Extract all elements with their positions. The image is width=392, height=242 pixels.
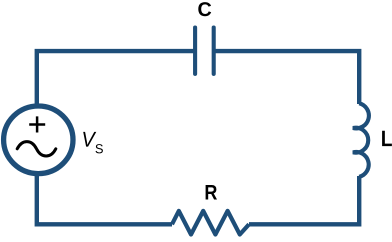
resistor R (zigzag)	[172, 211, 249, 235]
inductor L (coil)	[353, 103, 369, 177]
wire: top-right segment, capacitor C right plate to inductor L top	[216, 51, 360, 104]
value label L	[382, 131, 392, 146]
ac voltage source VS sine-wave symbol	[17, 142, 56, 156]
value label R	[206, 185, 217, 200]
ac voltage source VS polarity plus sign	[29, 116, 45, 132]
wire: left-top segment, source VS top to capacitor C left plate	[37, 51, 194, 105]
value label C	[198, 2, 211, 16]
wire: right-bottom segment, inductor L bottom to resistor R right	[249, 176, 359, 224]
wire: left-bottom segment, source VS bottom to resistor R left	[37, 175, 172, 224]
value label V_S (italic V with subscript S)	[83, 132, 96, 147]
capacitor C (plates)	[195, 28, 214, 74]
ac voltage source VS (circle)	[4, 106, 73, 174]
